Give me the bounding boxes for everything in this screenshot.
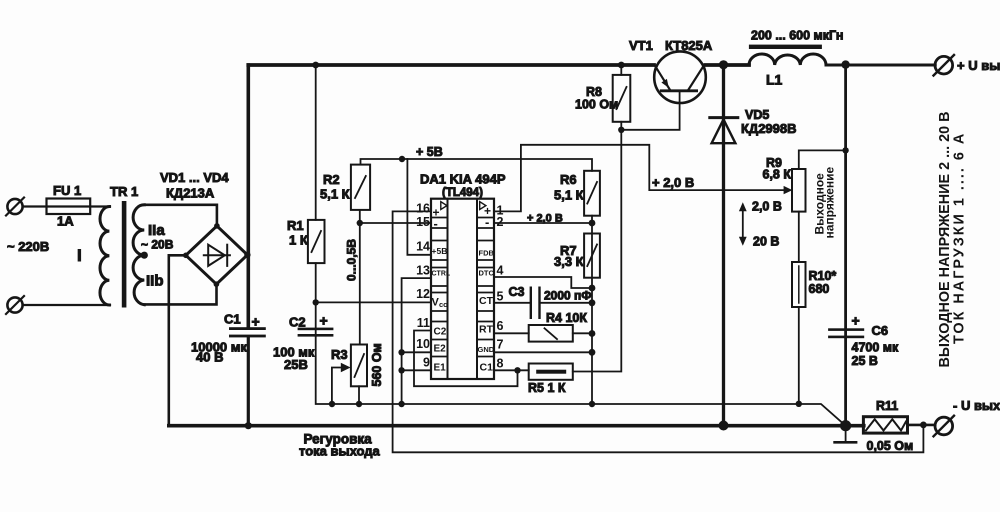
svg-text:4700 мк: 4700 мк (852, 341, 900, 355)
node R7 chain ground (589, 401, 595, 407)
svg-text:R10*: R10* (809, 269, 837, 283)
wire thin ground rail (316, 336, 846, 426)
resistor R7 (584, 234, 600, 278)
svg-text:40 В: 40 В (196, 350, 223, 365)
wire pin7 GND (494, 351, 593, 353)
wire Vcc pin12 (316, 301, 431, 303)
wire L1 to output (826, 64, 935, 67)
svg-text:L1: L1 (766, 72, 783, 88)
node R3 wiper ground (329, 401, 335, 407)
svg-text:+: + (252, 314, 260, 330)
node L1 out (841, 60, 849, 68)
node bottom main ground (840, 420, 851, 431)
node R8 base (618, 127, 624, 133)
svg-text:R6: R6 (560, 172, 577, 187)
resistor R5 (529, 364, 573, 380)
transistor VT1 (654, 51, 706, 103)
svg-text:14: 14 (416, 240, 430, 254)
svg-text:0,05 Ом: 0,05 Ом (867, 439, 914, 453)
node bottom VD5 (719, 421, 729, 431)
wire pin11 to pin8 loop (414, 331, 518, 387)
wire bridge plus vertical (thick) (247, 65, 251, 328)
svg-text:-: - (485, 215, 489, 230)
node E1 E2 ground (398, 401, 404, 407)
resistor R3 (351, 345, 367, 387)
wire output branch vertical (844, 65, 847, 426)
svg-text:1 К: 1 К (289, 233, 308, 248)
svg-text:C2: C2 (289, 315, 306, 330)
node R8 top (618, 62, 625, 69)
input terminal bottom (~220V) (6, 296, 24, 314)
node C3 right (589, 299, 596, 306)
svg-text:+ 2,0 В: + 2,0 В (652, 175, 694, 190)
node sense (920, 422, 927, 429)
svg-text:TR 1: TR 1 (110, 184, 138, 199)
wire R4 right (573, 332, 592, 334)
wire bottom thick rail (169, 424, 864, 428)
wire C3 right (541, 302, 592, 304)
svg-text:R5 1 К: R5 1 К (528, 381, 566, 395)
node center tap (141, 252, 148, 259)
wire R3 bottom (358, 386, 360, 404)
svg-text:100 Ом: 100 Ом (575, 98, 618, 112)
svg-text:15: 15 (416, 215, 430, 229)
R3 wiper arrowhead (341, 363, 351, 373)
capacitor C2 (298, 328, 334, 337)
capacitor C3 (530, 287, 541, 320)
svg-text:(TL494): (TL494) (442, 187, 483, 199)
svg-text:тока выхода: тока выхода (299, 444, 381, 459)
svg-text:C2: C2 (434, 327, 447, 338)
svg-text:+ 5В: + 5В (416, 145, 443, 159)
node Vcc C2 (313, 299, 319, 305)
svg-text:9: 9 (423, 356, 430, 370)
svg-text:8: 8 (497, 357, 504, 371)
wire pin14 to +5V (407, 159, 431, 255)
svg-text:0...0,5В: 0...0,5В (345, 239, 359, 281)
wire top rail left (248, 63, 654, 67)
wire secondary top to bridge (144, 205, 217, 226)
wire C1 bottom to rail (247, 337, 250, 425)
input terminal top (~220V) (6, 198, 24, 216)
svg-text:~ 220В: ~ 220В (7, 239, 49, 254)
svg-text:VD1 ... VD4: VD1 ... VD4 (160, 170, 229, 185)
svg-text:DTC: DTC (479, 269, 495, 278)
svg-text:11: 11 (417, 316, 430, 330)
svg-text:cc: cc (439, 300, 447, 309)
svg-text:CTRL: CTRL (432, 271, 451, 278)
resistor R4 (529, 325, 573, 342)
svg-text:КД213А: КД213А (166, 186, 215, 201)
svg-text:R2: R2 (323, 172, 340, 187)
svg-text:R3: R3 (331, 347, 348, 362)
wire pin13 to ground (402, 278, 431, 404)
IC pin cell labels (432, 204, 495, 374)
node R9 top (842, 147, 848, 153)
wire R5 right to base line (573, 130, 622, 372)
diode VD5 (710, 118, 738, 144)
secondary winding IIb (133, 255, 144, 305)
transformer core (122, 201, 127, 308)
svg-text:5,1 К: 5,1 К (554, 188, 584, 203)
wire R8 top (620, 65, 622, 75)
inductor L1 (749, 45, 826, 65)
IC pin numbers (416, 202, 430, 370)
svg-text:+: + (852, 313, 860, 329)
op-amp U DA1 IC body (431, 199, 494, 379)
output terminal plus (934, 55, 955, 76)
output terminal minus (934, 416, 955, 437)
fuse FU1 (47, 199, 91, 215)
svg-text:6: 6 (497, 319, 504, 333)
svg-text:C3: C3 (509, 285, 525, 299)
node R10 bottom ground (796, 401, 802, 407)
wire pin4 DTC (494, 277, 592, 288)
wire R11 to minus output (908, 424, 936, 427)
node R3 bottom ground (356, 401, 362, 407)
svg-text:R1: R1 (287, 218, 304, 233)
svg-text:13: 13 (416, 264, 430, 278)
resistor R8 (613, 75, 631, 122)
svg-text:20 В: 20 В (753, 235, 779, 249)
svg-text:- U вых: - U вых (953, 398, 1000, 413)
node +5V pin14 (399, 156, 405, 162)
svg-text:3,3 К: 3,3 К (554, 254, 584, 269)
svg-text:+5B: +5B (432, 246, 448, 256)
svg-text:VT1: VT1 (629, 38, 653, 53)
wire pin9 E1 (402, 369, 431, 371)
capacitor C1 (229, 327, 266, 337)
svg-text:VD5: VD5 (745, 108, 769, 122)
svg-text:1A: 1A (57, 214, 74, 229)
R9 wiper arrowhead (784, 186, 793, 194)
resistor R1 (308, 220, 325, 263)
wire R2 bottom to R3 (359, 210, 361, 345)
svg-text:E2: E2 (434, 344, 447, 355)
svg-text:+: + (320, 313, 328, 329)
secondary winding IIa (133, 205, 144, 255)
IC comparator triangles (441, 202, 447, 210)
node pin8 loop (514, 367, 520, 373)
wire VD5 vertical thick (722, 65, 725, 426)
wire input top to fuse to primary (23, 205, 110, 207)
svg-text:6,8 К: 6,8 К (763, 168, 792, 182)
wire pin1 feedback to R9 wiper (494, 145, 785, 212)
node R7 bottom pin4 (589, 285, 596, 292)
svg-text:5,1 К: 5,1 К (320, 187, 350, 202)
resistor R10 (792, 262, 806, 307)
svg-text:I: I (77, 246, 82, 265)
wire pin15 (360, 222, 431, 224)
wire R9 top (799, 150, 846, 169)
svg-text:C1: C1 (224, 312, 241, 327)
svg-text:+ 2,0 В: + 2,0 В (527, 213, 563, 225)
svg-text:7: 7 (497, 338, 504, 352)
svg-text:560 Ом: 560 Ом (370, 343, 384, 386)
svg-text:200 ... 600 мкГн: 200 ... 600 мкГн (751, 29, 843, 43)
svg-text:C6: C6 (872, 323, 889, 338)
svg-text:IIb: IIb (146, 273, 164, 290)
wire input bottom to primary (23, 304, 110, 306)
label 2,0V span arrow (739, 202, 747, 245)
svg-text:25В: 25В (284, 357, 308, 372)
wire R7 chain vertical (591, 223, 593, 404)
svg-text:2,0 В: 2,0 В (752, 200, 782, 214)
svg-text:12: 12 (416, 287, 430, 301)
wire +5V rail (361, 159, 593, 171)
svg-text:E1: E1 (434, 363, 447, 374)
wire R9 to R10 (798, 212, 800, 262)
wire secondary bottom to bridge (144, 284, 216, 304)
ground (835, 426, 857, 443)
wire bridge left corner to bottom rail (169, 255, 186, 424)
svg-text:-: - (434, 216, 438, 231)
svg-text:25 В: 25 В (852, 354, 878, 368)
wire top rail right of VT1 (706, 63, 750, 67)
node pin7 (589, 349, 596, 356)
wire pin10 E2 (402, 351, 431, 353)
wire pin6 RT to R4 (494, 332, 529, 334)
svg-text:R4 10К: R4 10К (546, 311, 587, 325)
svg-text:CT: CT (479, 295, 494, 307)
svg-text:напряжение: напряжение (823, 167, 837, 239)
wire pin16 current sense (393, 211, 924, 452)
svg-text:DA1 KIA 494P: DA1 KIA 494P (420, 172, 506, 187)
svg-text:680: 680 (809, 282, 830, 296)
label Vyhodnoe napryazhenie (813, 167, 837, 239)
svg-text:RT: RT (479, 324, 494, 336)
svg-text:R11: R11 (876, 399, 898, 413)
svg-text:2000 пФ: 2000 пФ (544, 289, 592, 303)
wire base VT1 (621, 91, 679, 130)
svg-text:КД2998В: КД2998В (741, 121, 797, 136)
svg-text:2: 2 (497, 215, 504, 229)
resistor R2 (351, 165, 370, 210)
potentiometer R9 (792, 169, 806, 212)
svg-text:10: 10 (416, 337, 430, 351)
node E2 (398, 349, 404, 355)
resistor R6 (584, 171, 600, 216)
svg-text:FU 1: FU 1 (53, 183, 81, 198)
wire R8 bottom (620, 122, 622, 130)
wire R6 bottom (591, 216, 593, 223)
wire pin8 C1 to R5 (494, 369, 529, 371)
wire R3 wiper (332, 368, 342, 405)
capacitor C6 (828, 328, 864, 338)
svg-text:16: 16 (416, 202, 430, 216)
svg-text:IIa: IIa (148, 222, 165, 239)
node C1 bottom (245, 422, 252, 429)
svg-text:~ 20В: ~ 20В (141, 238, 174, 252)
svg-text:C1: C1 (480, 362, 494, 374)
bridge rectifier VD1...VD4 (183, 223, 251, 287)
wire pin2 (494, 222, 592, 224)
wire pin5 CT to C3 (494, 302, 530, 304)
node E1 (398, 367, 404, 373)
node VD5 top (719, 60, 728, 69)
svg-text:GND: GND (478, 345, 495, 354)
primary winding I (100, 207, 109, 306)
node R1 top (312, 62, 319, 69)
node R6 R7 pin2 (589, 220, 596, 227)
svg-text:ТОК НАГРУЗКИ 1 .... 6 А: ТОК НАГРУЗКИ 1 .... 6 А (952, 132, 968, 344)
node R4 right (589, 330, 596, 337)
node R2 pin15 (357, 220, 363, 226)
resistor R11 shunt (863, 417, 907, 433)
svg-text:FDB: FDB (479, 249, 495, 258)
svg-text:5: 5 (497, 290, 504, 304)
wire R1 bottom to Vcc node (315, 263, 317, 336)
label output voltage rotated (937, 112, 968, 368)
wire R10 bottom (798, 307, 800, 404)
svg-text:4: 4 (497, 264, 504, 278)
svg-text:+ U вых: + U вых (957, 58, 1000, 73)
svg-text:КТ825А: КТ825А (665, 38, 713, 53)
wire R1 top vertical (315, 65, 317, 220)
